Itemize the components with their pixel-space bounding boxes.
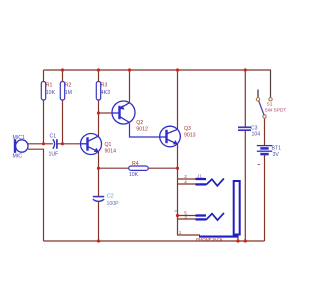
capacitor C3 (238, 127, 251, 130)
wire C3 column bottom (244, 131, 246, 241)
svg-text:R4: R4 (132, 161, 139, 167)
node Q3 collector top (176, 68, 179, 71)
battery BT1 (257, 146, 272, 155)
svg-text:1M: 1M (65, 90, 72, 96)
svg-text:Q1: Q1 (105, 142, 112, 148)
resistor R2 body (60, 82, 64, 101)
svg-text:1: 1 (179, 230, 182, 235)
svg-text:S1: S1 (267, 102, 273, 108)
svg-text:SW SPDT: SW SPDT (265, 107, 287, 113)
node tiny magenta mark under battery (258, 164, 261, 166)
wire R3 column (98, 70, 100, 113)
resistor R1 body (41, 82, 45, 101)
node C3 ground (244, 239, 247, 242)
switch S1 (256, 90, 272, 119)
wire Q1 emitter to C2 (98, 151, 100, 196)
wire jack pin 5 (178, 215, 196, 217)
svg-text:MIC1: MIC1 (13, 135, 26, 141)
label S1 (265, 102, 287, 114)
svg-text:C2: C2 (107, 194, 114, 200)
svg-text:C1: C1 (50, 134, 57, 140)
svg-text:R2: R2 (65, 83, 72, 89)
wire jack pin 4 (178, 183, 196, 185)
wire Q2 base (99, 112, 113, 114)
node Q1 emitter R4 (97, 167, 100, 170)
wire bottom ground bus (44, 240, 265, 242)
wire Q2 emitter to bus (129, 70, 131, 102)
wire R2 column (62, 70, 64, 144)
node sleeve ground (236, 239, 239, 242)
svg-text:Q3: Q3 (184, 126, 191, 132)
wire bus corner to switch terminal (270, 70, 272, 98)
svg-text:J1: J1 (197, 173, 202, 178)
svg-text:PHONEJACK: PHONEJACK (196, 237, 223, 242)
svg-text:1UF: 1UF (49, 151, 59, 157)
svg-text:4: 4 (184, 180, 187, 185)
svg-text:Q2: Q2 (136, 120, 143, 126)
resistor R3 body (96, 82, 100, 101)
node Q1 collector R3 (97, 111, 100, 114)
phone jack J1 contact tip (pins 2/4) (196, 179, 224, 186)
svg-text:4K3: 4K3 (101, 90, 110, 96)
phone jack J1 contact ring (pins 5/3) (196, 213, 225, 220)
wire Q3 emitter down jack column (178, 144, 201, 235)
label jack pin numbers (179, 174, 188, 235)
node R3 top (97, 68, 100, 71)
phone jack J1 sleeve body (199, 181, 240, 237)
capacitor C1 (53, 139, 57, 149)
node jack pin5 (176, 214, 179, 217)
capacitor C2 (93, 197, 104, 202)
wire Q1 collector (98, 113, 100, 136)
wire Q2 collector to Q3 base (blue net) (130, 123, 160, 137)
node C3 top (244, 68, 247, 71)
wire C1 to Q1 base (57, 143, 81, 145)
node R2 top (61, 68, 64, 71)
wire C3 column top (244, 70, 246, 127)
node Q2 emitter top (128, 68, 131, 71)
node R4 Q3 emitter (176, 167, 179, 170)
resistor R4 body (129, 166, 149, 170)
wire C2 to ground bus (98, 201, 100, 241)
wire R4 right lead (148, 167, 177, 169)
transistor Q3 (160, 126, 181, 147)
wire mic ground drop (28, 149, 44, 241)
wire R4 left lead (99, 167, 129, 169)
svg-text:3: 3 (184, 215, 187, 220)
transistor Q2 (112, 101, 135, 124)
svg-text:9014: 9014 (105, 149, 117, 155)
svg-text:104: 104 (252, 131, 261, 137)
node C1 R2 junction (61, 142, 64, 145)
node junction dots (42, 68, 247, 242)
wire mic to C1 (28, 143, 53, 145)
wire jack sleeve to bus (237, 237, 239, 241)
wire switch common to battery (264, 118, 266, 145)
svg-text:3V: 3V (273, 152, 280, 158)
svg-text:9012: 9012 (136, 127, 148, 133)
labels (46, 83, 196, 167)
svg-text:10K: 10K (46, 90, 56, 96)
svg-text:R1: R1 (46, 83, 53, 89)
svg-text:100P: 100P (107, 201, 120, 207)
svg-text:9013: 9013 (184, 133, 196, 139)
wire Q3 collector to bus (177, 70, 179, 130)
transistor Q1 (81, 134, 102, 155)
wire jack pin 3 (178, 218, 196, 220)
node tiny cyan mark near pin5 (175, 210, 178, 212)
svg-text:BT1: BT1 (272, 146, 282, 152)
node mic R1 junction (42, 142, 45, 145)
node C2 ground (97, 239, 100, 242)
wire R1 column (43, 70, 45, 144)
svg-text:R3: R3 (101, 83, 108, 89)
label C2 (107, 194, 120, 208)
svg-text:10K: 10K (129, 172, 139, 178)
wire top power bus (44, 69, 271, 71)
wire battery bottom lead (264, 155, 266, 241)
svg-text:MIC: MIC (13, 154, 23, 160)
svg-text:2: 2 (184, 174, 187, 179)
wire jack pin 2 (178, 178, 196, 180)
microphone MIC1 (15, 139, 28, 153)
